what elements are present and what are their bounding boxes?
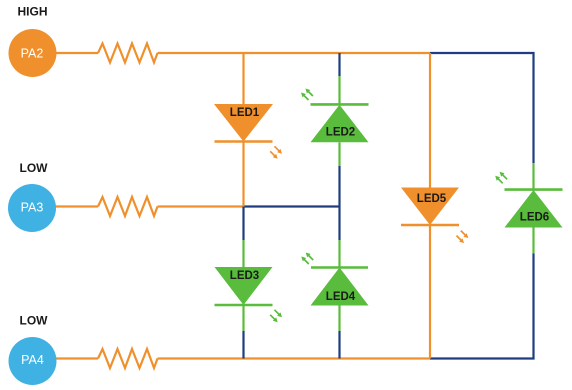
svg-text:PA3: PA3 bbox=[21, 201, 44, 215]
node PA2 (orange pin circle) bbox=[9, 29, 57, 77]
svg-text:LED1: LED1 bbox=[230, 107, 260, 119]
wire: PA4 row blue segment from node C to LED6 column, corner up bbox=[430, 254, 534, 359]
svg-text:LED2: LED2 bbox=[326, 127, 355, 139]
LED LED3 (green, cathode down) bbox=[215, 267, 283, 322]
wire: R1 to node C column (top bus, orange) bbox=[158, 52, 431, 54]
resistor R3 (PA4 series resistor) bbox=[98, 349, 158, 368]
svg-text:LOW: LOW bbox=[20, 314, 49, 328]
wire: PA3 to resistor R2 bbox=[56, 205, 99, 207]
svg-text:PA2: PA2 bbox=[21, 47, 44, 61]
svg-text:LED5: LED5 bbox=[417, 193, 447, 205]
LED LED2 (green, cathode up) bbox=[301, 89, 369, 143]
svg-text:LED6: LED6 bbox=[520, 212, 549, 224]
wire: column A green lead from LED3 cathode bbox=[242, 305, 244, 331]
wire: column B green lead to LED4 cathode bbox=[338, 240, 340, 268]
node PA4 (blue pin circle) bbox=[9, 337, 57, 385]
wire: column D green lead to LED6 cathode bbox=[532, 163, 534, 190]
wire: PA2 to resistor R1 bbox=[56, 52, 99, 54]
wire: column A green lead to LED3 anode bbox=[242, 240, 244, 268]
svg-text:LED4: LED4 bbox=[326, 291, 356, 303]
wire: column C orange from LED5 cathode to PA4 row bbox=[429, 225, 431, 359]
LED LED4 (green, cathode up) bbox=[301, 253, 368, 306]
wire: column B blue stub from top bus bbox=[338, 53, 340, 76]
wire: column B green lead from LED4 anode bbox=[338, 306, 340, 332]
wire: column B blue through PA3 row junction bbox=[338, 166, 340, 240]
svg-text:HIGH: HIGH bbox=[18, 5, 48, 19]
wire: PA3 row blue segment from node A to node B bbox=[244, 205, 340, 207]
LED LED6 (green, cathode up) bbox=[495, 172, 562, 228]
wire: column A blue below PA3 row bbox=[242, 207, 244, 241]
wire: column B green lead from LED2 anode bbox=[338, 142, 340, 166]
wire: column D green lead from LED6 anode bbox=[532, 228, 534, 254]
svg-text:PA4: PA4 bbox=[21, 353, 44, 367]
wire: column C orange from top bus to LED5 anode bbox=[429, 53, 431, 188]
wire: column B green lead to LED2 cathode bbox=[338, 76, 340, 104]
wire: R2 to node A column (orange) bbox=[158, 205, 244, 207]
LED LED1 (orange, cathode down) bbox=[214, 104, 282, 159]
LED LED5 (orange, cathode down) bbox=[401, 188, 468, 244]
resistor R1 (PA2 series resistor) bbox=[98, 44, 158, 63]
wire: column A orange drop from top bus to LED1 anode bbox=[242, 53, 244, 105]
svg-text:LED3: LED3 bbox=[230, 270, 259, 282]
wire: PA4 to resistor R3 bbox=[56, 357, 99, 359]
wire: column A orange LED1 cathode to PA3 row bbox=[242, 142, 244, 207]
wire: column B blue to PA4 row bbox=[338, 331, 340, 359]
wire: top bus blue segment to LED6 column, corner down bbox=[430, 53, 534, 163]
node PA3 (blue pin circle) bbox=[8, 184, 56, 232]
wire: column A blue to PA4 row bbox=[242, 331, 244, 359]
wire: R3 to node C column (orange) bbox=[158, 357, 431, 359]
resistor R2 (PA3 series resistor) bbox=[98, 197, 158, 216]
svg-text:LOW: LOW bbox=[20, 161, 49, 175]
